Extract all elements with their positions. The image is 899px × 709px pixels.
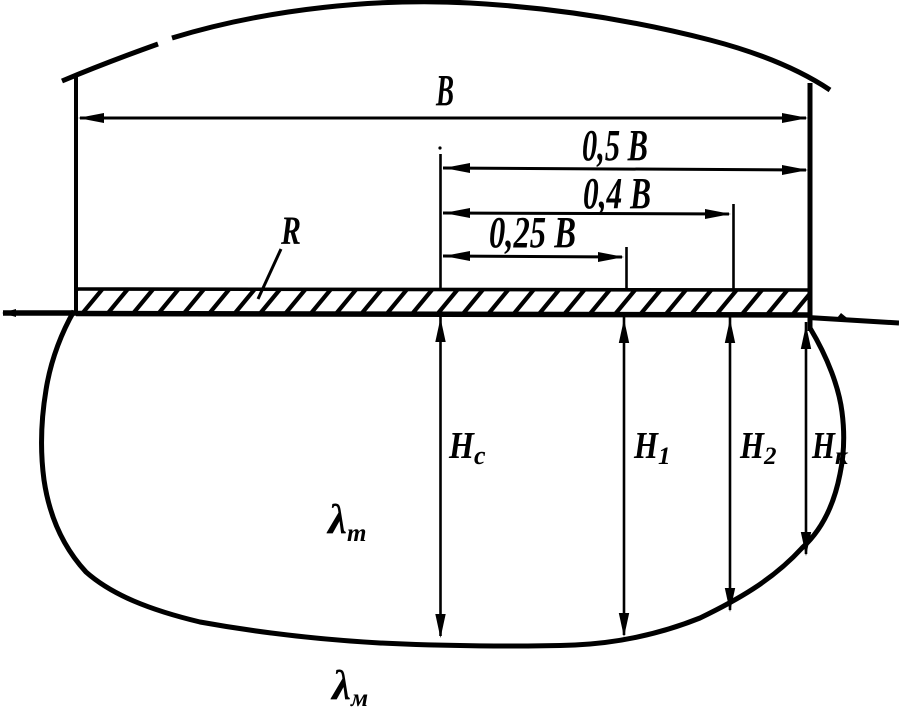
svg-text:H2: H2 [739,425,776,470]
H_1 arrow [619,316,629,637]
dimension 0,25B [443,251,624,262]
right wall [808,83,813,331]
dimension 0,5B [443,163,808,175]
svg-text:Hc: Hc [448,425,486,470]
waterline left [2,309,78,317]
dimension 0,4B [443,208,731,219]
H_C arrow [435,316,445,638]
extension line for 0,25B [625,247,628,290]
svg-text:0,25 B: 0,25 B [489,208,576,257]
extension line for 0,4B [732,204,735,290]
H_K arrow [801,322,811,556]
hatched band (deck) [56,289,814,316]
top arc main segment [172,2,830,90]
band bottom edge / waterline middle [76,314,808,316]
centerline [438,146,441,290]
top arc left segment [62,44,158,81]
svg-text:R: R [280,208,301,253]
dimension B arrow [78,113,808,123]
svg-text:0,4 B: 0,4 B [583,169,651,218]
svg-text:H1: H1 [633,425,670,470]
left wall [74,74,78,312]
waterline right [808,313,899,323]
svg-text:λт: λт [326,497,366,547]
svg-text:B: B [435,66,454,115]
hull outline [42,311,844,646]
label R with leader [258,208,301,299]
H_2 arrow [725,316,735,612]
svg-text:0,5 B: 0,5 B [582,121,648,170]
svg-text:λм: λм [330,663,368,709]
band top edge [76,289,808,290]
